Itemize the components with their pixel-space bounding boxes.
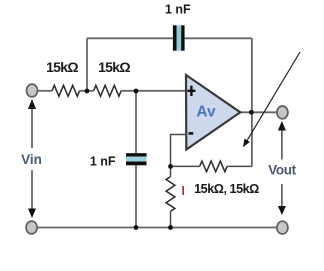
- Vin arrowhead down: [28, 209, 36, 219]
- wire from C2 down to ground rail: [135, 165, 137, 227]
- svg-text:Av: Av: [196, 104, 216, 121]
- wire top horizontal right of C1: [185, 37, 252, 39]
- wire input from Vin terminal to R1: [38, 90, 53, 92]
- wire right vertical from top to output node: [251, 38, 253, 166]
- wire minus input stub to feedback node: [171, 135, 187, 167]
- resistor R2 15k zigzag: [94, 85, 122, 96]
- wire top horizontal left of C1: [87, 37, 173, 39]
- svg-text:Vout: Vout: [268, 163, 296, 178]
- annotation diagonal arrow line: [247, 52, 301, 142]
- svg-text:15kΩ, 15kΩ: 15kΩ, 15kΩ: [194, 182, 259, 196]
- junction node B dot: [134, 89, 139, 94]
- junction R4 ground dot: [168, 225, 173, 230]
- junction output node dot: [249, 110, 254, 115]
- capacitor C1 right plate: [181, 25, 184, 50]
- red calibration tick: [182, 186, 184, 195]
- ground rail bottom wire: [37, 227, 277, 229]
- resistor R1 15k zigzag: [52, 85, 80, 96]
- svg-text:15kΩ: 15kΩ: [98, 59, 130, 75]
- op-amp minus input mark: [189, 132, 194, 135]
- junction C2 ground dot: [134, 225, 139, 230]
- wire from feedback node down to R4: [170, 166, 172, 176]
- svg-text:1 nF: 1 nF: [90, 155, 116, 169]
- wire feedback left lead: [171, 165, 200, 167]
- terminal Vout top: [277, 106, 288, 119]
- wire R4 bottom lead to ground rail: [170, 211, 172, 227]
- Vin arrow shaft lower: [31, 170, 33, 210]
- Vout arrowhead down: [278, 206, 286, 215]
- resistor R4 vertical zigzag: [166, 177, 175, 212]
- wire from R2 to op-amp plus input: [121, 90, 186, 92]
- annotation arrowhead: [243, 139, 250, 148]
- capacitor C2 bottom plate: [126, 162, 147, 166]
- capacitor C2 dielectric gap: [126, 157, 147, 162]
- capacitor C2 1nF top plate: [126, 153, 147, 156]
- wire op-amp output to Vout terminal: [240, 111, 276, 113]
- terminal bottom left: [26, 221, 37, 234]
- junction feedback node dot: [168, 164, 173, 169]
- op-amp plus input mark: [187, 86, 195, 96]
- wire feedback right lead up to output node: [227, 165, 252, 167]
- resistor R3 feedback zigzag: [200, 161, 228, 172]
- capacitor C1 1nF left plate: [173, 25, 177, 50]
- svg-text:1 nF: 1 nF: [165, 3, 191, 17]
- junction node A dot: [85, 89, 90, 94]
- capacitor C1 dielectric gap: [177, 25, 182, 50]
- op-amp U1 triangle: [186, 75, 240, 150]
- svg-text:Vin: Vin: [21, 152, 42, 167]
- Vout arrow shaft lower: [281, 184, 283, 207]
- svg-text:15kΩ: 15kΩ: [46, 59, 78, 75]
- wire node A up to top feedback branch: [86, 38, 88, 91]
- Vin arrow shaft upper: [31, 108, 33, 148]
- wire between R1 and R2 through node A: [80, 90, 94, 92]
- terminal Vin top: [27, 84, 38, 97]
- terminal bottom right: [277, 221, 288, 234]
- wire middle vertical from node B down to C2: [135, 91, 137, 153]
- Vout arrow shaft upper: [281, 129, 283, 160]
- Vin arrowhead up: [28, 99, 36, 109]
- Vout arrowhead up: [278, 121, 286, 131]
